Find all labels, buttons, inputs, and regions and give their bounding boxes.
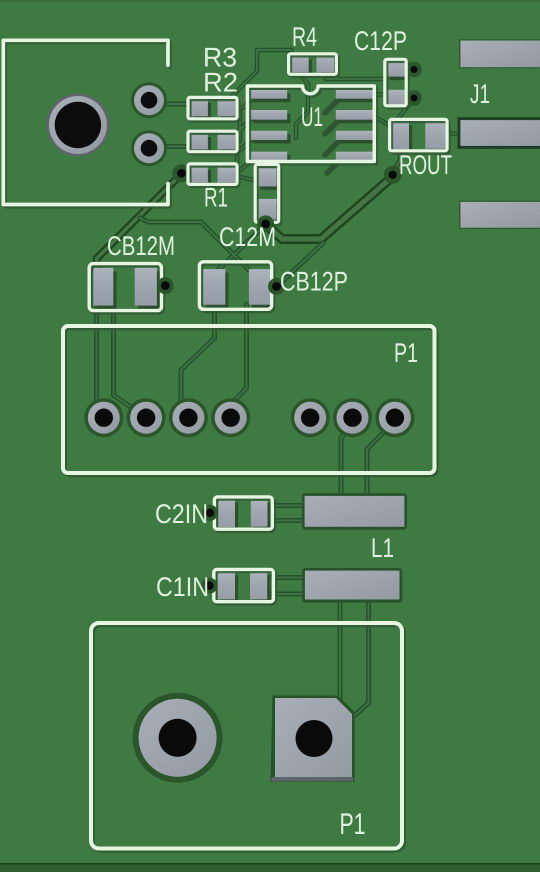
wire R1 to C12M xyxy=(233,175,263,180)
wire to CB12P via xyxy=(278,243,323,286)
resistor R1 pads xyxy=(191,167,239,187)
via C12P bottom xyxy=(406,90,421,105)
connector P1 square pad xyxy=(271,696,355,783)
wire L1 to P1 square pad xyxy=(338,601,343,701)
inductor L1 pad top xyxy=(302,493,407,530)
svg-text:CB12M: CB12M xyxy=(107,231,175,261)
via ROUT xyxy=(384,166,402,184)
resistor R3 outline xyxy=(188,97,237,118)
svg-text:J1: J1 xyxy=(470,79,490,109)
svg-text:CB12P: CB12P xyxy=(280,267,348,297)
connector J1 pad top xyxy=(459,39,540,68)
svg-text:P1: P1 xyxy=(394,338,418,368)
wire R4 trace through notch xyxy=(296,74,308,138)
svg-text:C2IN: C2IN xyxy=(155,499,208,529)
wire via to ROUT xyxy=(399,100,413,125)
wire pad to R3 xyxy=(152,102,199,107)
capacitor C1IN outline xyxy=(214,569,274,601)
resistor R2 outline xyxy=(188,131,237,152)
wire C12M to U1 xyxy=(264,158,269,170)
svg-text:C1IN: C1IN xyxy=(156,572,209,602)
via CB12M xyxy=(157,277,174,294)
svg-text:L1: L1 xyxy=(371,533,394,563)
op-amp U1 outline with notch xyxy=(247,86,374,162)
wire R3 to R4 xyxy=(228,50,292,100)
wire pad to R2 xyxy=(152,144,199,149)
wire C12P pad2 to via xyxy=(402,96,414,101)
wire ROUT to J1 xyxy=(444,131,463,136)
wire CB12M to P1 pin1 xyxy=(97,305,102,412)
trace highlights 2 xyxy=(140,218,323,286)
connector J1 pad bottom xyxy=(459,201,540,229)
via C12P top xyxy=(406,62,421,77)
wire via to ROUT pad xyxy=(393,148,400,173)
capacitor C12P outline xyxy=(385,59,406,106)
op-amp U1 pads right xyxy=(336,90,377,165)
wire C2IN to L1 a xyxy=(267,503,307,508)
silkscreen shadow xyxy=(5,43,449,851)
capacitor CB12M pads xyxy=(93,268,160,309)
resistor R2 pads xyxy=(191,134,239,154)
svg-text:R4: R4 xyxy=(292,22,317,52)
board bottom edge strip xyxy=(0,863,540,872)
capacitor C12M pads xyxy=(257,168,280,223)
resistor R4 pads xyxy=(291,56,337,76)
connector ROUT outline xyxy=(390,119,448,150)
wire R3 to R2 xyxy=(238,108,243,141)
resistor R4 outline xyxy=(289,54,337,75)
wire P1 pin7 to L1 xyxy=(367,428,388,498)
connector ROUT pads xyxy=(392,121,450,152)
wire R1 to U1 pad3 xyxy=(237,139,252,164)
trace highlights xyxy=(152,50,463,180)
capacitor C12P pads xyxy=(386,62,408,109)
wire U1 to ROUT xyxy=(371,115,391,126)
wire wide via-ROUT to via-C12M xyxy=(266,177,393,240)
board top edge line xyxy=(0,0,540,2)
via R1 xyxy=(172,164,190,182)
via C1IN xyxy=(201,578,217,594)
wire R1 to U1 pad xyxy=(238,160,252,172)
wire via to R1 xyxy=(183,171,196,176)
big mounting hole pad xyxy=(46,94,109,157)
wire branch to CB12P right pad xyxy=(140,218,249,270)
wire L1 to P1 square pad chamfer xyxy=(354,601,369,716)
wire CB12P to P1 pin4 xyxy=(231,304,247,411)
capacitor C2IN pads xyxy=(218,499,270,531)
connector J1 pad middle xyxy=(458,117,540,149)
wire U1 to C12P xyxy=(371,92,388,97)
op-amp U1 pads left xyxy=(250,90,291,165)
wire C12P pad to via xyxy=(402,67,414,72)
resistor R3 pads xyxy=(191,99,239,120)
connector outline top-left xyxy=(3,40,168,204)
wire C12M via to CB12P pad xyxy=(216,225,266,273)
connector P1 outline bottom xyxy=(91,623,402,849)
wire C1IN to L1 a xyxy=(266,575,306,580)
via C12M xyxy=(257,215,274,232)
svg-text:R2: R2 xyxy=(203,68,238,98)
connector P1 pin holes xyxy=(84,398,414,437)
wire C1IN to L1 b xyxy=(266,592,306,597)
wire C2IN to L1 b xyxy=(267,518,307,523)
via C2IN xyxy=(202,505,218,521)
svg-text:P1: P1 xyxy=(340,808,366,841)
capacitor C1IN pads xyxy=(218,572,271,603)
capacitor C12M outline xyxy=(255,164,279,222)
wire R4 to C12P xyxy=(326,72,391,79)
wire R2 to U1 pad xyxy=(236,118,252,134)
capacitor CB12P pads xyxy=(203,269,274,308)
hole pad A xyxy=(131,82,167,118)
hole pad B xyxy=(131,130,167,166)
svg-text:C12M: C12M xyxy=(219,222,276,252)
trace highlights xyxy=(97,304,389,716)
svg-text:ROUT: ROUT xyxy=(399,150,452,180)
connector P1 outline top xyxy=(63,326,435,473)
wire CB12M to P1 pin2 xyxy=(114,305,143,415)
wire P1 pin6 to L1 xyxy=(341,429,348,498)
svg-text:U1: U1 xyxy=(301,102,323,132)
wire R3 to U1 pad xyxy=(228,99,252,108)
wire CB12P to P1 pin3 xyxy=(181,304,215,412)
resistor R1 outline xyxy=(188,164,237,185)
capacitor CB12M outline xyxy=(89,264,161,311)
capacitor C2IN outline xyxy=(214,497,272,529)
svg-text:C12P: C12P xyxy=(354,26,407,56)
wire wide R1-via to CB12M pad xyxy=(97,174,182,272)
capacitor CB12P outline xyxy=(199,262,271,310)
connector P1 round hole xyxy=(133,693,223,783)
op-amp U1 pad shadows xyxy=(325,100,338,173)
inductor L1 pad bottom xyxy=(302,568,402,603)
via CB12P xyxy=(268,278,285,295)
svg-text:R1: R1 xyxy=(204,183,228,213)
